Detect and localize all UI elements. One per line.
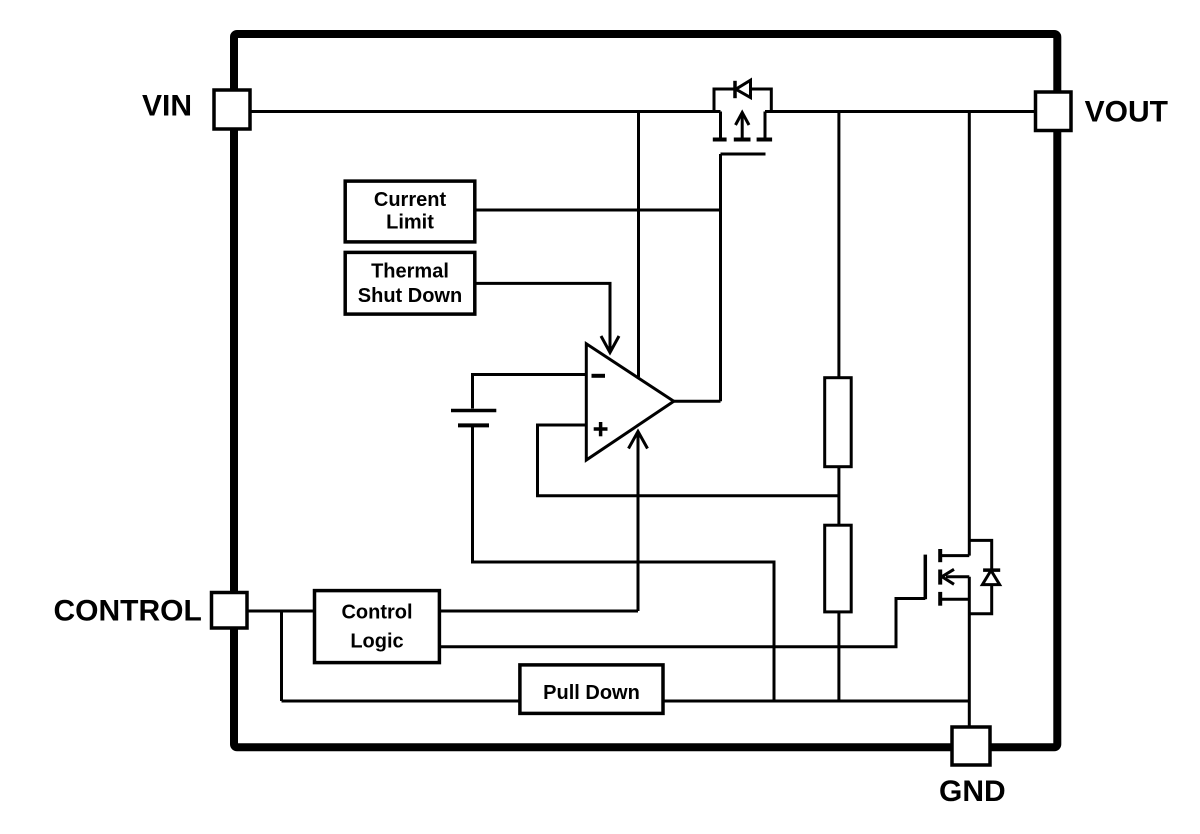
- svg-text:Logic: Logic: [350, 630, 403, 652]
- svg-text:VOUT: VOUT: [1085, 95, 1168, 128]
- svg-text:VIN: VIN: [142, 90, 192, 123]
- svg-text:GND: GND: [939, 775, 1006, 808]
- svg-text:Pull Down: Pull Down: [543, 682, 640, 704]
- svg-text:Control: Control: [341, 601, 412, 623]
- svg-text:Limit: Limit: [386, 212, 434, 234]
- svg-text:Current: Current: [374, 189, 447, 211]
- svg-text:CONTROL: CONTROL: [54, 595, 202, 628]
- svg-text:Shut Down: Shut Down: [358, 285, 462, 307]
- svg-text:Thermal: Thermal: [371, 260, 449, 282]
